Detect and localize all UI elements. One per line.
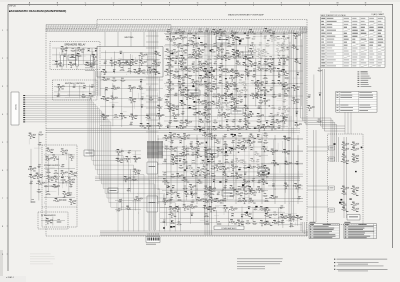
svg-text:MAIN TRANSISTOR VOLTAGE: MAIN TRANSISTOR VOLTAGE [321, 14, 347, 17]
svg-text:■SCHEMATIC DIAGRAM (MAIN/POWER: ■SCHEMATIC DIAGRAM (MAIN/POWER) [9, 9, 66, 13]
svg-text:POWER AMP ASSY: POWER AMP ASSY [221, 227, 237, 230]
svg-text:MAIN/CENTER/REAR POWER AMP: MAIN/CENTER/REAR POWER AMP [228, 13, 264, 16]
svg-text:V (AC) CHART: V (AC) CHART [371, 13, 385, 16]
svg-text:J: J [253, 2, 254, 4]
svg-text:MUTING CONTROL: MUTING CONTROL [65, 83, 86, 85]
svg-text:5V REGULATOR: 5V REGULATOR [41, 214, 56, 217]
svg-text:SPEAKERS RELAY: SPEAKERS RELAY [64, 43, 86, 46]
svg-text:POWER SUPPLY: POWER SUPPLY [44, 165, 61, 167]
svg-text:FAN CONTROL: FAN CONTROL [44, 185, 59, 188]
svg-text:MUTING: MUTING [125, 37, 134, 39]
svg-text:a-70A2-1: a-70A2-1 [6, 276, 14, 279]
svg-text:M: M [337, 2, 339, 4]
svg-text:DSP-A1: DSP-A1 [9, 5, 16, 8]
svg-text:CN601: CN601 [15, 103, 17, 110]
